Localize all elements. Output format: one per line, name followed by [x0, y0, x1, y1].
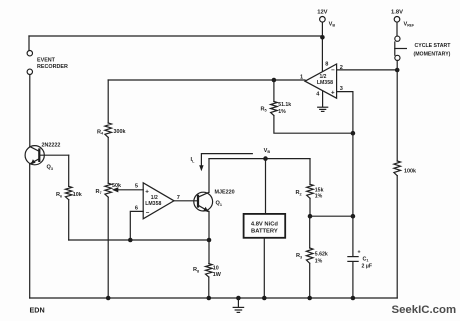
wire 12V down to op-amp pin 8 — [321, 22, 323, 71]
resistor 100k — [394, 161, 401, 176]
wire Q1 emitter down to mid rail — [208, 212, 210, 241]
wire event recorder to Q3 collector — [29, 75, 31, 147]
junction VB — [263, 156, 268, 161]
junction R3 ground — [307, 296, 312, 301]
svg-text:Q1: Q1 — [216, 201, 222, 207]
terminal 12V — [320, 17, 326, 23]
svg-text:R7: R7 — [96, 189, 102, 195]
potentiometer R7 50k — [105, 183, 112, 197]
svg-text:Q3: Q3 — [47, 165, 53, 171]
junction divider right — [351, 214, 356, 219]
wire R5 bottom corner to pin3 net — [274, 116, 353, 134]
svg-text:1.8V: 1.8V — [391, 9, 403, 15]
wire Q1 collector up to VB node — [208, 159, 210, 193]
terminal event recorder top — [27, 51, 32, 56]
junction R7 ground — [106, 296, 111, 301]
ground symbol — [237, 298, 239, 307]
wire R8 to ground rail — [208, 277, 210, 298]
svg-text:4: 4 — [316, 91, 320, 97]
ground symbol op-amp — [318, 106, 328, 108]
resistor R4 300k — [105, 123, 112, 137]
wire op-amp output to Q1 base — [174, 200, 198, 202]
resistor R8 10 1W — [206, 264, 213, 277]
wire R6 bottom to mid rail — [68, 200, 70, 240]
svg-text:EDN: EDN — [30, 305, 45, 314]
svg-text:1: 1 — [300, 74, 303, 80]
svg-text:15k: 15k — [315, 187, 324, 193]
junction battery ground — [262, 296, 267, 301]
svg-text:7: 7 — [177, 195, 180, 201]
resistor R6 10k — [65, 186, 72, 199]
svg-text:−: − — [331, 67, 335, 74]
junction pin6 branch on mid rail — [128, 238, 133, 243]
wire pin1 rail — [108, 79, 305, 81]
junction R5 top — [272, 78, 277, 83]
svg-text:+: + — [145, 188, 149, 195]
svg-text:VB: VB — [264, 148, 271, 154]
wire top rail from event recorder to 12V node — [29, 35, 322, 37]
junction ground stub — [236, 296, 241, 301]
svg-text:8: 8 — [325, 61, 328, 67]
wire 1.8V to switch — [396, 22, 398, 36]
wire divider to R3 — [309, 216, 311, 248]
wire pin3 net vertical — [352, 92, 354, 217]
wire pin 3 lead — [337, 91, 353, 93]
svg-text:5.62k: 5.62k — [315, 251, 328, 257]
op-amp U1a 1/2 LM358 — [305, 64, 337, 98]
wire R2 to divider node — [309, 198, 311, 216]
svg-text:VREF: VREF — [404, 21, 415, 27]
wire pin1 rail down to R4 — [107, 80, 109, 123]
svg-text:1%: 1% — [315, 194, 323, 200]
resistor R2 15k — [307, 184, 314, 198]
svg-text:50k: 50k — [112, 183, 121, 189]
svg-text:51.1k: 51.1k — [278, 102, 291, 108]
switch cycle start momentary — [395, 36, 407, 60]
junction 12V rail — [320, 35, 325, 40]
wire Q3 base lead — [39, 154, 68, 156]
svg-text:SeekIC.com: SeekIC.com — [392, 304, 457, 316]
svg-text:(MOMENTARY): (MOMENTARY) — [414, 51, 451, 57]
wire ground rail — [30, 297, 398, 299]
wire R7 bottom to ground rail — [107, 197, 109, 298]
current arrow IL — [201, 154, 252, 167]
junction switch net — [395, 68, 400, 73]
svg-text:C1: C1 — [363, 256, 369, 262]
wire mid rail — [69, 239, 209, 241]
op-amp U1b 1/2 LM358 — [143, 183, 174, 219]
svg-text:4.8V NiCd: 4.8V NiCd — [251, 222, 279, 228]
svg-text:R4: R4 — [97, 129, 104, 135]
svg-text:R6: R6 — [56, 192, 62, 198]
wire R4 to R7 — [107, 137, 109, 183]
svg-text:6: 6 — [135, 205, 138, 211]
resistor R5 51.1k — [271, 102, 278, 116]
wire Q3 emitter down to ground rail — [29, 164, 31, 298]
svg-text:MJE220: MJE220 — [215, 189, 235, 195]
wire pin 2 to switch net — [337, 69, 398, 71]
svg-text:+: + — [331, 89, 335, 96]
svg-text:EVENT: EVENT — [37, 57, 56, 63]
svg-text:+: + — [358, 249, 361, 255]
svg-text:R8: R8 — [193, 267, 199, 273]
svg-text:RECORDER: RECORDER — [37, 64, 68, 70]
svg-text:100k: 100k — [404, 168, 416, 174]
wire VB corner down to R2 — [309, 159, 311, 185]
wire pin 6 branch — [130, 211, 143, 240]
svg-text:12V: 12V — [317, 9, 327, 15]
svg-text:1%: 1% — [278, 109, 286, 115]
terminal 1.8V — [394, 17, 400, 23]
wire 100k to ground rail — [396, 176, 398, 298]
svg-text:BATTERY: BATTERY — [251, 229, 278, 235]
svg-text:VB: VB — [329, 21, 336, 27]
resistor R3 5.62k — [306, 248, 313, 263]
wire VB node rail — [209, 158, 310, 160]
svg-text:−: − — [146, 210, 150, 217]
svg-text:LM358: LM358 — [145, 201, 161, 207]
wire divider node link — [310, 215, 353, 217]
terminal event recorder bottom — [27, 69, 32, 74]
svg-text:1%: 1% — [315, 258, 323, 264]
svg-text:CYCLE START: CYCLE START — [415, 43, 452, 49]
wire R3 to ground rail — [309, 263, 311, 298]
svg-text:2 µF: 2 µF — [362, 263, 372, 269]
wire R5 branch down — [273, 80, 275, 102]
svg-text:1/2: 1/2 — [151, 195, 158, 201]
junction Q1 emitter / R8 — [207, 238, 212, 243]
wire C1 to ground rail — [352, 262, 354, 298]
junction R8 ground — [207, 296, 212, 301]
svg-text:IL: IL — [191, 157, 196, 163]
junction divider left — [308, 214, 313, 219]
wire stub to event recorder top terminal — [28, 36, 30, 51]
battery 4.8V NiCd — [244, 214, 286, 238]
svg-text:2N2222: 2N2222 — [42, 142, 61, 148]
wire switch to 100k — [396, 61, 398, 162]
wire VB to battery — [265, 159, 267, 214]
transistor Q1 MJE220 — [194, 192, 213, 212]
junction C1 ground — [351, 296, 356, 301]
svg-text:10k: 10k — [73, 192, 82, 198]
svg-text:300k: 300k — [114, 129, 126, 135]
svg-text:LM358: LM358 — [317, 80, 333, 86]
svg-text:R3: R3 — [296, 253, 302, 259]
capacitor C1 2uF — [348, 256, 358, 258]
junction R5 / pin3 net — [351, 131, 356, 136]
wire battery to ground rail — [263, 238, 265, 298]
transistor Q3 2N2222 — [25, 146, 44, 165]
wire divider to C1 — [352, 216, 354, 256]
wire mid rail to R8 — [208, 240, 210, 264]
svg-text:R2: R2 — [296, 190, 302, 196]
wire base corner down to R6 — [68, 155, 70, 186]
svg-text:1W: 1W — [213, 272, 222, 278]
svg-text:5: 5 — [135, 184, 138, 190]
wire pin 4 to ground — [322, 91, 324, 107]
svg-text:R5: R5 — [261, 106, 267, 112]
svg-text:10: 10 — [213, 265, 219, 271]
